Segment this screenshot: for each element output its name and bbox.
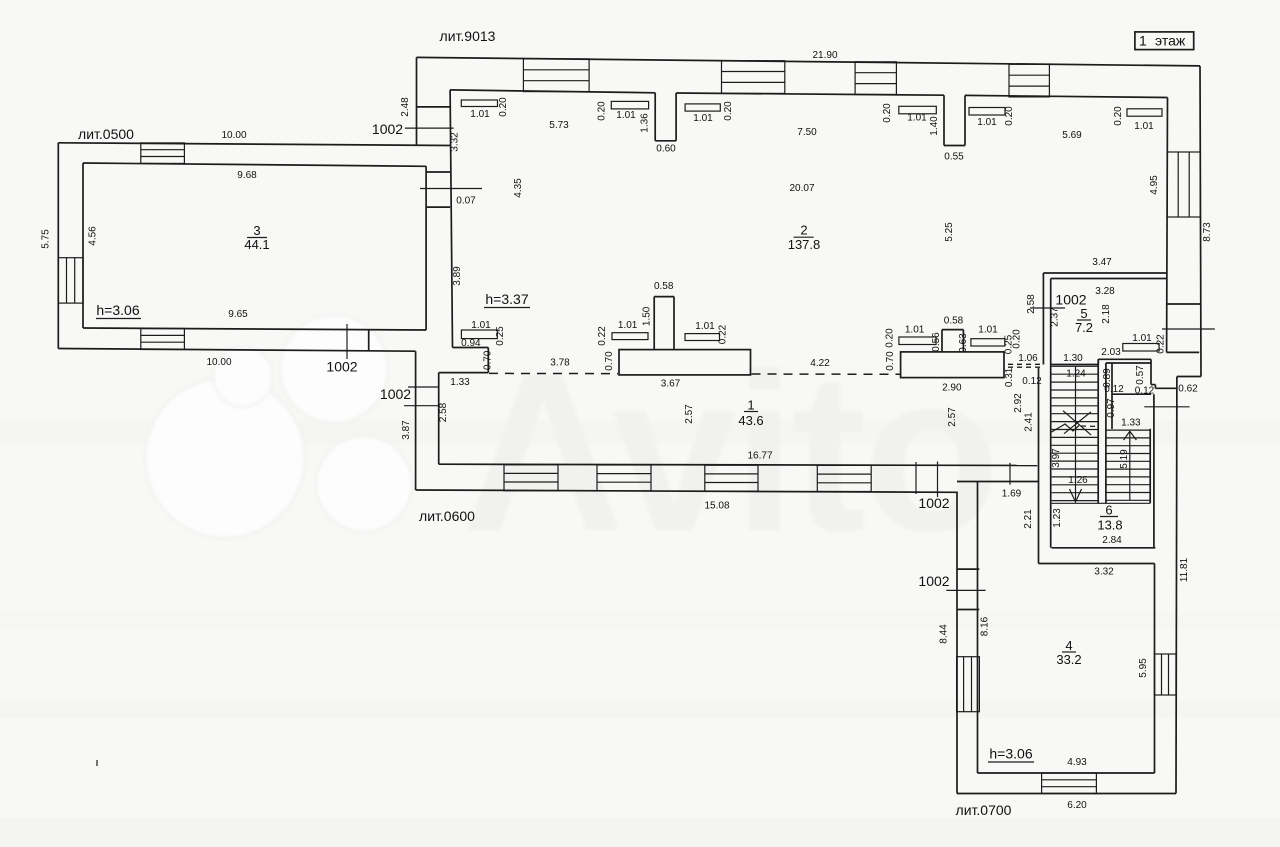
svg-text:4.95: 4.95 — [1149, 175, 1160, 195]
speck mark — [96, 760, 98, 766]
tick right wall — [1162, 328, 1215, 330]
svg-text:лит.0500: лит.0500 — [78, 126, 134, 142]
radiator RD — [899, 106, 937, 114]
svg-text:4.35: 4.35 — [513, 178, 524, 198]
svg-text:6.20: 6.20 — [1067, 800, 1087, 811]
wire room3 right inner wall — [425, 166, 427, 330]
wire left building bottom outer wall — [58, 349, 415, 352]
svg-text:2.58: 2.58 — [438, 402, 449, 422]
svg-text:43.6: 43.6 — [738, 413, 763, 428]
T-wall 1 bar — [619, 350, 751, 375]
watermark avito circle big — [145, 378, 305, 538]
window W1 main top wall — [523, 59, 589, 92]
svg-text:2.21: 2.21 — [1023, 509, 1034, 529]
radiator RE — [969, 108, 1005, 116]
svg-text:2.57: 2.57 — [947, 407, 958, 427]
T-wall 2 stem — [941, 330, 943, 352]
door recess 0.60 top wall — [654, 93, 656, 141]
svg-text:0.20: 0.20 — [723, 101, 734, 121]
svg-text:3: 3 — [253, 223, 260, 238]
T-wall 2 bar — [901, 352, 1004, 378]
scan band 1 — [0, 420, 1280, 444]
wire room5/stairs left wall — [1050, 279, 1052, 548]
svg-text:5.73: 5.73 — [549, 120, 569, 131]
svg-text:1.30: 1.30 — [1063, 353, 1083, 364]
wire room5 top inner — [1051, 278, 1167, 280]
svg-text:4.22: 4.22 — [810, 358, 830, 369]
door 1002 bottom building left wall — [957, 568, 980, 570]
svg-text:0.58: 0.58 — [944, 316, 964, 327]
wire main top inner wall segment a — [450, 90, 655, 93]
window W9 bottom wall — [817, 465, 871, 491]
dashed opening 1.06 double — [1008, 363, 1041, 365]
wire main right inner wall — [1166, 98, 1169, 353]
svg-text:1.01: 1.01 — [470, 109, 490, 120]
wire room1 bottom inner wall — [439, 464, 1037, 465]
tick 1.69 separator — [1009, 463, 1011, 485]
svg-text:1.23: 1.23 — [1052, 508, 1063, 528]
svg-text:0.31: 0.31 — [1004, 367, 1015, 387]
tick bottom wall a — [915, 462, 917, 494]
svg-text:5.69: 5.69 — [1062, 130, 1082, 141]
svg-text:3.47: 3.47 — [1092, 257, 1112, 268]
svg-text:0.25: 0.25 — [495, 326, 506, 346]
tick 0.62 — [1144, 406, 1189, 408]
svg-text:1.01: 1.01 — [977, 117, 997, 128]
svg-text:лит.0700: лит.0700 — [956, 802, 1012, 818]
wire shaft left inner — [1111, 363, 1113, 429]
wire main building lower-left outer wall — [415, 351, 417, 490]
stairs up arrow — [1129, 431, 1131, 500]
svg-text:20.07: 20.07 — [789, 183, 814, 194]
svg-text:9.65: 9.65 — [228, 309, 248, 320]
svg-text:1.33: 1.33 — [450, 377, 470, 388]
svg-text:1: 1 — [747, 398, 754, 413]
wire main top outer wall — [417, 57, 1201, 66]
window left building top wall — [141, 143, 185, 164]
svg-text:2: 2 — [800, 223, 807, 238]
svg-text:1.01: 1.01 — [695, 321, 715, 332]
stairs X mark — [1063, 411, 1091, 435]
wire room4 top right wall — [1039, 563, 1155, 565]
window left building bottom wall — [141, 329, 185, 350]
wire main building upper-left outer wall — [416, 57, 418, 145]
wire room3 top inner wall — [83, 163, 426, 166]
svg-text:0.58: 0.58 — [654, 281, 674, 292]
radiator T1 left — [612, 333, 648, 340]
svg-text:3.87: 3.87 — [401, 420, 412, 440]
svg-text:15.08: 15.08 — [704, 501, 729, 512]
wire stairs divider right / shaft left outer — [1105, 363, 1107, 503]
svg-text:6: 6 — [1105, 503, 1112, 518]
svg-text:3.67: 3.67 — [661, 379, 681, 390]
svg-text:0.20: 0.20 — [1113, 106, 1124, 126]
wire room3 bottom inner wall — [83, 328, 426, 330]
svg-text:44.1: 44.1 — [244, 237, 269, 252]
tick room5 left wall — [1030, 307, 1065, 309]
stairs left flight steps — [1052, 365, 1099, 367]
svg-text:0.22: 0.22 — [718, 324, 729, 344]
svg-text:1002: 1002 — [918, 573, 949, 589]
svg-text:4.93: 4.93 — [1067, 757, 1087, 768]
wire junction line 2.48 — [417, 106, 451, 108]
door recess 0.55 top wall — [943, 95, 945, 145]
svg-text:2.41: 2.41 — [1024, 412, 1035, 432]
window bottom building right wall — [1155, 654, 1177, 695]
scan band 4 — [0, 612, 1280, 628]
wire room5 bottom wall — [1051, 364, 1099, 366]
wire room5 left outer wall — [1042, 273, 1044, 365]
svg-text:2.84: 2.84 — [1102, 535, 1122, 546]
svg-text:3.78: 3.78 — [550, 358, 570, 369]
wire room4 bottom inner wall — [978, 772, 1155, 774]
svg-text:1.06: 1.06 — [1018, 353, 1038, 364]
svg-text:1002: 1002 — [326, 359, 357, 375]
door tick 1002 bottom wall — [937, 462, 939, 498]
svg-text:3.32: 3.32 — [1094, 567, 1114, 578]
wire junction niche bottom — [426, 206, 450, 208]
window W3 main top wall — [722, 61, 785, 94]
svg-text:1.01: 1.01 — [618, 320, 638, 331]
window right wall main — [1167, 152, 1200, 217]
svg-text:5: 5 — [1080, 306, 1087, 321]
svg-text:1.01: 1.01 — [1132, 333, 1152, 344]
wire shaft bottom — [1112, 393, 1151, 395]
stairs right flight steps — [1106, 429, 1150, 431]
svg-text:1.01: 1.01 — [978, 325, 998, 336]
svg-text:8.44: 8.44 — [938, 624, 949, 644]
svg-text:33.2: 33.2 — [1056, 652, 1081, 667]
tick pair left connector — [408, 386, 439, 388]
wire shaft top — [1106, 362, 1151, 364]
svg-text:2.18: 2.18 — [1101, 304, 1112, 324]
frame 1 etazh — [1135, 32, 1194, 50]
svg-text:9.68: 9.68 — [237, 170, 257, 181]
tick 0.07 — [420, 188, 482, 190]
svg-text:1.01: 1.01 — [471, 320, 491, 331]
svg-text:4.56: 4.56 — [87, 226, 98, 246]
svg-text:8.73: 8.73 — [1202, 222, 1213, 242]
svg-text:0.70: 0.70 — [604, 351, 615, 371]
wire ledge 1.69 — [957, 481, 1039, 483]
dashed opening 3.78 — [489, 372, 618, 374]
svg-text:1.01: 1.01 — [905, 325, 925, 336]
window bottom building left wall — [957, 657, 980, 712]
svg-text:0.22: 0.22 — [597, 326, 608, 346]
svg-text:5.19: 5.19 — [1119, 449, 1130, 469]
svg-text:Avito: Avito — [462, 326, 996, 578]
window W5 main top wall — [1009, 64, 1049, 97]
wire stairs landing line — [1052, 502, 1151, 504]
wire room3 left inner wall — [82, 163, 84, 328]
radiator RF — [1127, 109, 1162, 116]
svg-text:0.20: 0.20 — [1004, 106, 1015, 126]
radiator RC — [685, 104, 720, 111]
wire left building bottom inner step — [368, 330, 370, 351]
wire main top inner wall segment b — [676, 93, 944, 95]
wire main building left inner wall — [450, 90, 452, 348]
svg-text:1.01: 1.01 — [1134, 121, 1154, 132]
radiator room5 — [1123, 344, 1159, 352]
svg-text:21.90: 21.90 — [812, 50, 837, 61]
svg-text:10.00: 10.00 — [206, 357, 231, 368]
wire main right outer wall — [1200, 66, 1201, 377]
svg-text:2.92: 2.92 — [1013, 393, 1024, 413]
svg-text:h=3.37: h=3.37 — [485, 291, 528, 307]
svg-text:2.03: 2.03 — [1101, 347, 1121, 358]
svg-text:2.57: 2.57 — [684, 404, 695, 424]
svg-text:0.70: 0.70 — [483, 350, 494, 370]
wire bottom building left outer wall — [956, 492, 958, 794]
svg-text:1002: 1002 — [918, 495, 949, 511]
radiator RB — [611, 101, 648, 109]
svg-text:13.8: 13.8 — [1097, 518, 1122, 533]
svg-text:10.00: 10.00 — [221, 130, 246, 141]
svg-text:5.95: 5.95 — [1138, 658, 1149, 678]
svg-text:11.81: 11.81 — [1179, 557, 1190, 582]
dashed opening 4.22 — [752, 373, 901, 375]
svg-text:0.97: 0.97 — [1106, 398, 1117, 418]
svg-text:0.60: 0.60 — [656, 144, 676, 155]
svg-text:0.55: 0.55 — [944, 152, 964, 163]
wire stairs box bottom wall — [1052, 547, 1156, 549]
svg-text:8.16: 8.16 — [979, 616, 990, 636]
wire shaft shelf — [1098, 358, 1151, 360]
svg-text:1.33: 1.33 — [1121, 418, 1141, 429]
wire room5 top outer — [1043, 272, 1166, 274]
wire room1 left inner wall — [438, 373, 440, 465]
wire step wall 0.70 corner — [453, 347, 489, 349]
svg-text:2.37: 2.37 — [1050, 307, 1061, 327]
wire room4 right inner wall — [1154, 564, 1156, 774]
wire stairs right boundary — [1149, 429, 1151, 504]
wire stairs divider left — [1097, 359, 1099, 503]
radiator T2 left — [899, 337, 936, 345]
stairs down arrow — [1075, 366, 1077, 500]
svg-text:1.01: 1.01 — [907, 113, 927, 124]
window W7 bottom wall — [597, 465, 651, 491]
svg-text:0.63: 0.63 — [958, 333, 969, 353]
svg-text:3.97: 3.97 — [1051, 448, 1062, 468]
svg-text:0.07: 0.07 — [456, 196, 476, 207]
svg-text:0.20: 0.20 — [597, 101, 608, 121]
svg-text:5.75: 5.75 — [40, 229, 51, 249]
svg-text:3.28: 3.28 — [1095, 286, 1115, 297]
svg-text:5.25: 5.25 — [944, 222, 955, 242]
wire left building top outer wall — [58, 143, 450, 146]
wire shaft right — [1150, 359, 1152, 384]
svg-text:1002: 1002 — [380, 386, 411, 402]
svg-text:лит.9013: лит.9013 — [440, 28, 496, 44]
svg-text:137.8: 137.8 — [788, 237, 821, 252]
wire right niche bottom — [1167, 351, 1200, 353]
svg-text:2.90: 2.90 — [942, 383, 962, 394]
svg-text:2.58: 2.58 — [1026, 294, 1037, 314]
wire shaft below right — [1153, 394, 1155, 548]
wire room1 bottom outer wall — [416, 490, 957, 492]
wire right notch a — [1151, 384, 1155, 386]
svg-text:4: 4 — [1065, 638, 1072, 653]
svg-text:3.89: 3.89 — [452, 266, 463, 286]
scan band 3 — [0, 818, 1280, 847]
watermark avito circle top-right — [280, 315, 388, 423]
scan band 2 — [0, 700, 1280, 718]
wire right niche top — [1168, 303, 1201, 305]
radiator T1 right — [685, 334, 720, 341]
svg-text:1: 1 — [1139, 32, 1147, 48]
watermark avito circle bottom-right — [316, 436, 412, 532]
svg-text:16.77: 16.77 — [747, 451, 772, 462]
window W8 bottom wall — [705, 465, 758, 491]
svg-text:0.57: 0.57 — [1135, 365, 1146, 385]
svg-text:1.40: 1.40 — [929, 116, 940, 136]
wire right outer wall lower — [1175, 377, 1178, 794]
leader line 1002 top connector — [405, 127, 454, 129]
T-wall 1 stem — [653, 297, 655, 350]
svg-text:0.70: 0.70 — [885, 351, 896, 371]
watermark avito circle small — [213, 347, 273, 407]
svg-text:1.36: 1.36 — [640, 113, 651, 133]
svg-text:1.01: 1.01 — [616, 110, 636, 121]
radiator 0.94 step — [461, 330, 497, 339]
wire bottom building bottom outer wall — [957, 793, 1176, 795]
svg-text:1.69: 1.69 — [1002, 489, 1022, 500]
door tick 1002 left building bottom wall — [346, 324, 348, 359]
wire corridor left wall — [1038, 368, 1040, 564]
svg-text:0.20: 0.20 — [882, 103, 893, 123]
radiator RA — [461, 100, 497, 107]
wire bottom building left inner wall — [977, 482, 979, 774]
svg-text:0.62: 0.62 — [1178, 384, 1198, 395]
svg-text:2.48: 2.48 — [400, 97, 411, 117]
wire left building left outer wall — [57, 143, 59, 349]
wire junction niche top — [426, 171, 450, 173]
svg-text:1.50: 1.50 — [642, 306, 653, 326]
svg-text:7.50: 7.50 — [797, 127, 817, 138]
svg-text:h=3.06: h=3.06 — [989, 746, 1032, 762]
window W6 bottom wall — [504, 465, 558, 491]
svg-text:0.20: 0.20 — [498, 97, 509, 117]
svg-text:7.2: 7.2 — [1075, 320, 1093, 335]
svg-text:0.20: 0.20 — [1012, 329, 1023, 349]
wire right wall step out — [1177, 376, 1201, 378]
svg-text:1002: 1002 — [372, 121, 403, 137]
svg-text:0.20: 0.20 — [884, 328, 895, 348]
svg-text:1.01: 1.01 — [693, 113, 713, 124]
window left building left wall — [58, 258, 83, 303]
svg-text:0.12: 0.12 — [1135, 386, 1155, 397]
svg-text:0.12: 0.12 — [1104, 384, 1124, 395]
radiator T2 right — [971, 339, 1005, 346]
svg-text:лит.0600: лит.0600 — [419, 508, 475, 524]
window W4 main top wall — [855, 62, 896, 95]
svg-text:0.22: 0.22 — [1156, 334, 1167, 354]
svg-text:этаж: этаж — [1155, 32, 1186, 48]
svg-text:0.94: 0.94 — [461, 338, 481, 349]
svg-text:h=3.06: h=3.06 — [96, 302, 139, 318]
svg-text:1.26: 1.26 — [1068, 475, 1088, 486]
wire main top inner wall segment c — [965, 95, 1168, 97]
window bottom building bottom wall — [1042, 773, 1097, 794]
